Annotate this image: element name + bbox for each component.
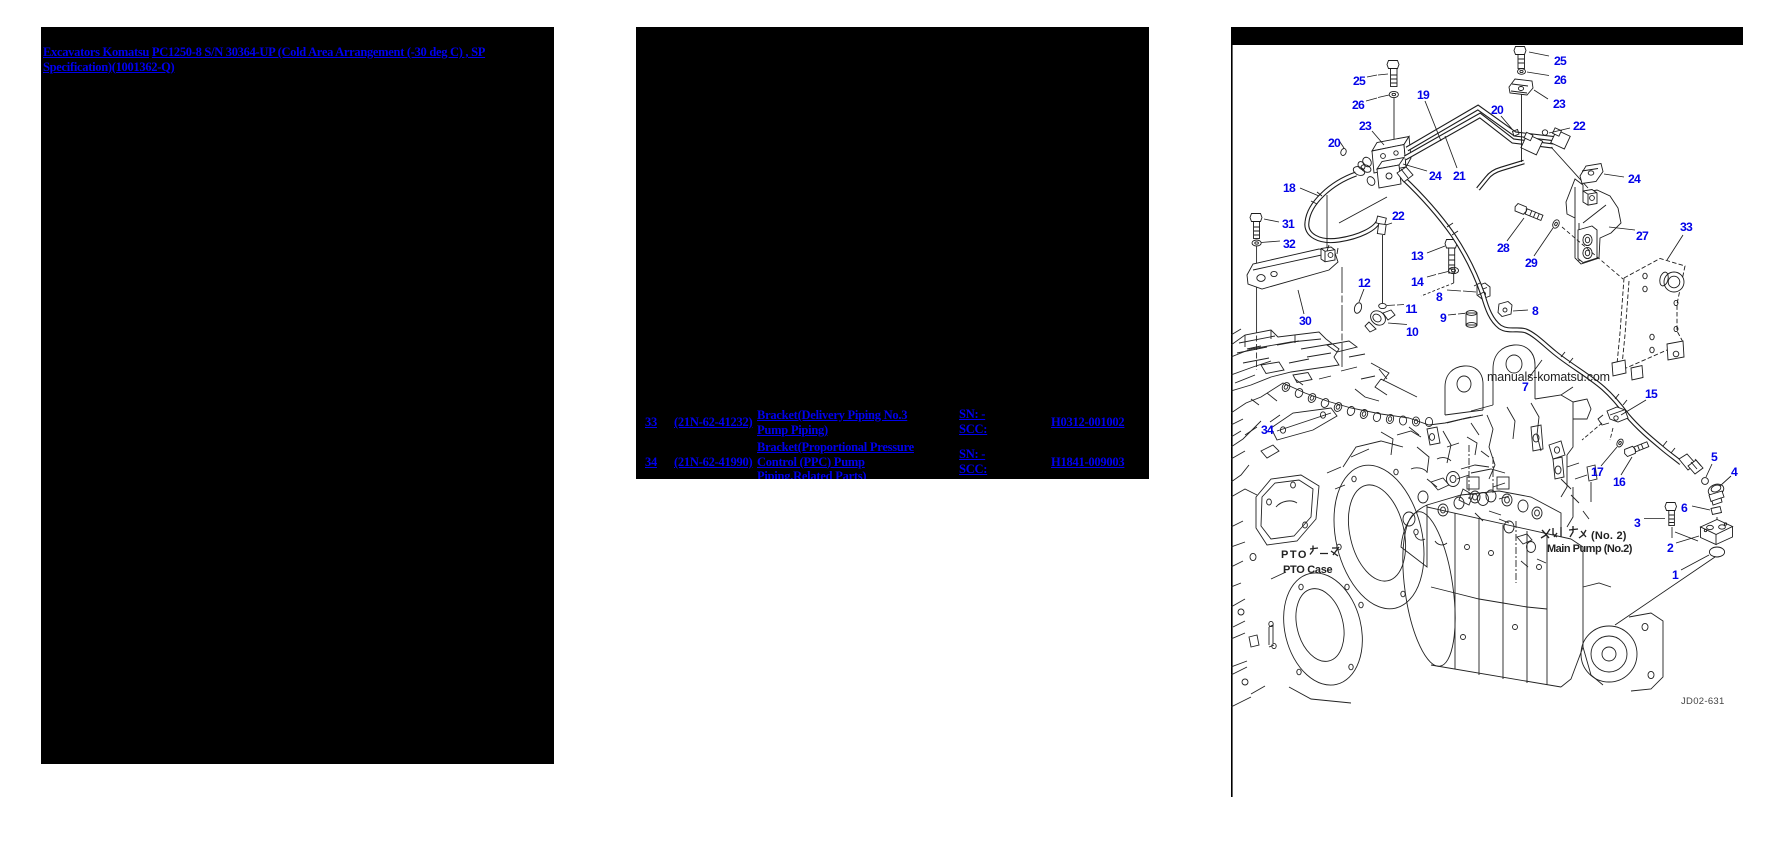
katakana strokes (case) (1310, 546, 1339, 557)
svg-text:22: 22 (1573, 119, 1586, 133)
leader 2 (1676, 536, 1699, 543)
svg-text:Main Pump (No.2): Main Pump (No.2) (1547, 543, 1633, 555)
leader 20 left (1338, 139, 1344, 148)
wire: projection line bolt31 down (1256, 247, 1258, 328)
leader 29 (1534, 228, 1553, 256)
svg-text:5: 5 (1711, 450, 1718, 464)
svg-text:28: 28 (1497, 241, 1510, 255)
wire: engine lower left lines (1231, 542, 1276, 694)
svg-text:10: 10 (1406, 325, 1419, 339)
pipe end fitting (upper) (1521, 132, 1543, 155)
row 34 (645, 455, 657, 470)
pipe 19 (1407, 108, 1557, 150)
leader 12 (1359, 289, 1364, 302)
leader 7 (1528, 360, 1542, 379)
leader 5 (1706, 464, 1712, 477)
svg-text:13: 13 (1411, 249, 1424, 263)
svg-text:2: 2 (1667, 541, 1674, 555)
washer 26 (left) (1389, 91, 1398, 97)
leader 3 (1644, 518, 1665, 520)
pump rear flange (1581, 613, 1663, 691)
leader 25 right (1529, 52, 1549, 56)
leader 34 (1270, 415, 1280, 422)
hose 7 (1403, 178, 1681, 463)
elbow 10 (1365, 308, 1395, 332)
wire: stud line from washer down to manifold (1393, 98, 1395, 149)
lower flange (1271, 565, 1374, 703)
lifting ear 2 (1471, 345, 1573, 411)
title links (43, 45, 513, 74)
hose 7 collar fitting (1397, 167, 1413, 182)
leader 33 (1667, 235, 1683, 260)
svg-text:9: 9 (1440, 311, 1447, 325)
svg-text:27: 27 (1636, 229, 1649, 243)
pipe 21 (1405, 116, 1553, 159)
svg-text:18: 18 (1283, 181, 1296, 195)
washer 17 (1616, 438, 1625, 448)
plate 33 (dashed) (1617, 259, 1685, 373)
cube on bracket 30 (1321, 247, 1335, 262)
svg-text:17: 17 (1591, 465, 1604, 479)
svg-text:32: 32 (1283, 237, 1296, 251)
ring 22 (right) (1542, 130, 1547, 135)
pipe end fitting (lower) (1551, 128, 1571, 149)
wire: line from union 22 down to elbow 10 (1382, 235, 1384, 303)
central gasket ring (1321, 441, 1438, 618)
svg-text:21: 21 (1453, 169, 1466, 183)
pump centerlines (1469, 445, 1516, 583)
leader 16 (1621, 457, 1632, 475)
svg-text:29: 29 (1525, 256, 1538, 270)
left preview panel (41, 27, 554, 764)
wire: dashed construction to block 2 (1672, 517, 1717, 541)
svg-text:16: 16 (1613, 475, 1626, 489)
hose ticks (1311, 192, 1675, 453)
svg-text:6: 6 (1681, 501, 1688, 515)
washer 29 (1551, 219, 1560, 230)
bolt 13 (1445, 240, 1457, 274)
pipe stub below fittings (1478, 162, 1524, 189)
leader 18 (1300, 188, 1319, 196)
leader 24 (left) (1403, 164, 1427, 171)
pump top fittings (1438, 469, 1542, 519)
block with holes on bracket 27 (1578, 226, 1597, 263)
leader 22 left (1386, 223, 1392, 225)
leader 22 right (1549, 128, 1570, 133)
svg-text:11: 11 (1405, 302, 1417, 316)
leader 8 second (1513, 310, 1528, 311)
washer 26 (right) (1518, 69, 1526, 75)
clamp 8 (second) (1498, 302, 1512, 317)
svg-text:26: 26 (1352, 98, 1365, 112)
callout numbers (1261, 54, 1738, 582)
pump valve clutter (1403, 472, 1546, 568)
svg-text:24: 24 (1429, 169, 1442, 183)
leader 31 (1264, 219, 1279, 222)
svg-text:20: 20 (1328, 136, 1341, 150)
bolt 3 (1665, 503, 1677, 526)
leader 26 right (1527, 72, 1549, 76)
svg-text:12: 12 (1358, 276, 1371, 290)
svg-text:PTO: PTO (1281, 549, 1308, 561)
svg-text:14: 14 (1411, 275, 1424, 289)
wire: dash continuation (1256, 327, 1258, 370)
manifold block 23 area (1357, 137, 1411, 189)
hose 7 end fitting (1679, 454, 1703, 474)
clamp 23 (right) (1509, 79, 1533, 95)
union fitting 22 (left) (1376, 216, 1386, 235)
leader 26 left (1366, 95, 1389, 101)
wire: stud from washer 14 down (1453, 274, 1455, 283)
wire: projection from bracket 27 to plate 33 (1562, 227, 1623, 279)
svg-text:34: 34 (1261, 423, 1274, 437)
leader 13 (1427, 246, 1445, 253)
bolt 25 (right) (1514, 47, 1526, 69)
svg-text:23: 23 (1359, 119, 1372, 133)
o-ring 1 (1709, 547, 1724, 557)
svg-text:8: 8 (1436, 290, 1443, 304)
elbow 4 (1707, 482, 1726, 505)
engine right side frame (1409, 395, 1597, 527)
svg-text:15: 15 (1645, 387, 1658, 401)
wire: stud line clamp to pipe (1521, 94, 1523, 162)
bolt hole arc on engine (1281, 381, 1433, 426)
svg-text:25: 25 (1353, 74, 1366, 88)
hose 18 (1307, 174, 1379, 241)
engine extra details (1231, 329, 1483, 707)
leader 4 (1720, 476, 1731, 486)
clamp 8 (left) (1477, 283, 1490, 299)
leader 11 (1387, 305, 1404, 306)
bracket 27 (1566, 179, 1621, 264)
svg-text:1: 1 (1672, 568, 1679, 582)
block 2 (1701, 520, 1733, 545)
middle table panel (636, 27, 1149, 479)
svg-text:26: 26 (1554, 73, 1567, 87)
o-ring 5 (1702, 478, 1709, 485)
svg-text:(No. 2): (No. 2) (1591, 530, 1627, 542)
clamp 24 (right) (1580, 164, 1603, 184)
svg-text:manuals-komatsu.com: manuals-komatsu.com (1487, 370, 1610, 384)
svg-text:JD02-631: JD02-631 (1681, 696, 1725, 707)
row 33 (645, 415, 657, 430)
svg-text:31: 31 (1282, 217, 1295, 231)
PTO upper plate (1256, 475, 1319, 545)
clamp 15 (1598, 407, 1628, 425)
leader 21 (1445, 136, 1457, 168)
leader 8 left (1447, 290, 1476, 292)
leader 6 (1692, 506, 1710, 510)
hose 18 end fitting (upper) (1352, 163, 1372, 177)
oval 12 (1353, 302, 1363, 314)
leader 23 left (1372, 131, 1384, 145)
main pump text (1547, 530, 1633, 555)
svg-text:19: 19 (1417, 88, 1430, 102)
leader 15 (1621, 400, 1646, 415)
wire: projection diagonal (1339, 197, 1387, 223)
engine block outline (1231, 330, 1409, 482)
svg-text:25: 25 (1554, 54, 1567, 68)
svg-text:8: 8 (1532, 304, 1539, 318)
washer 14 (1449, 267, 1459, 273)
leader 1 (1681, 555, 1709, 570)
katakana strokes (main pump) (1541, 526, 1586, 538)
leader 17 (1601, 447, 1617, 466)
leader 23 right (1534, 90, 1548, 99)
bolt 25 (left) (1387, 61, 1399, 87)
bolt 31 (1250, 214, 1262, 239)
wire: projection line cube 30 down (1341, 267, 1343, 367)
svg-text:30: 30 (1299, 314, 1312, 328)
bracket 30 (1247, 249, 1338, 289)
bolt 28 (1514, 203, 1544, 221)
leader 19 (1425, 101, 1441, 141)
washer 32 (1252, 240, 1261, 246)
svg-text:23: 23 (1553, 97, 1566, 111)
PTO case text (1281, 549, 1333, 576)
cylinder 9 (1466, 311, 1477, 328)
top black bar (1231, 27, 1743, 45)
leader 9 (1448, 313, 1465, 315)
wire: projection pipe to bracket 27 (1551, 147, 1588, 188)
left frame line (1231, 27, 1233, 797)
part 20 left: plug (1340, 148, 1347, 157)
leader 28 (1507, 218, 1524, 241)
leader 10 (1388, 323, 1407, 325)
leader 14 (1427, 272, 1448, 278)
svg-text:33: 33 (1680, 220, 1693, 234)
leader 20 right (1501, 116, 1512, 129)
svg-text:24: 24 (1628, 172, 1641, 186)
leader 30 (1298, 290, 1304, 314)
svg-text:4: 4 (1731, 465, 1738, 479)
wire: projection washer14 to hose (1421, 283, 1454, 296)
leader 25 left (1367, 74, 1388, 77)
part 20 right: plug (1513, 130, 1520, 137)
ring 11 (1379, 303, 1387, 308)
wire: dashes near clamp 15 (1582, 423, 1613, 440)
svg-text:20: 20 (1491, 103, 1504, 117)
main pump body (1394, 491, 1611, 687)
engine/pump middle details (1319, 367, 1589, 519)
svg-text:3: 3 (1634, 516, 1641, 530)
wire: projection line cube30 to block (1326, 195, 1328, 248)
bracket 34 part (1271, 408, 1337, 440)
leader 27 (1609, 227, 1635, 230)
plug 6 (1711, 507, 1722, 515)
lifting ear 1 (1445, 366, 1483, 415)
svg-text:7: 7 (1522, 380, 1529, 394)
leader 24 right (1604, 174, 1624, 177)
leader 32 (1261, 241, 1280, 243)
cube on bracket 27 (1583, 190, 1597, 206)
bolt 16 (1623, 441, 1649, 457)
wire: long leader to pump (1615, 557, 1715, 625)
svg-text:22: 22 (1392, 209, 1405, 223)
